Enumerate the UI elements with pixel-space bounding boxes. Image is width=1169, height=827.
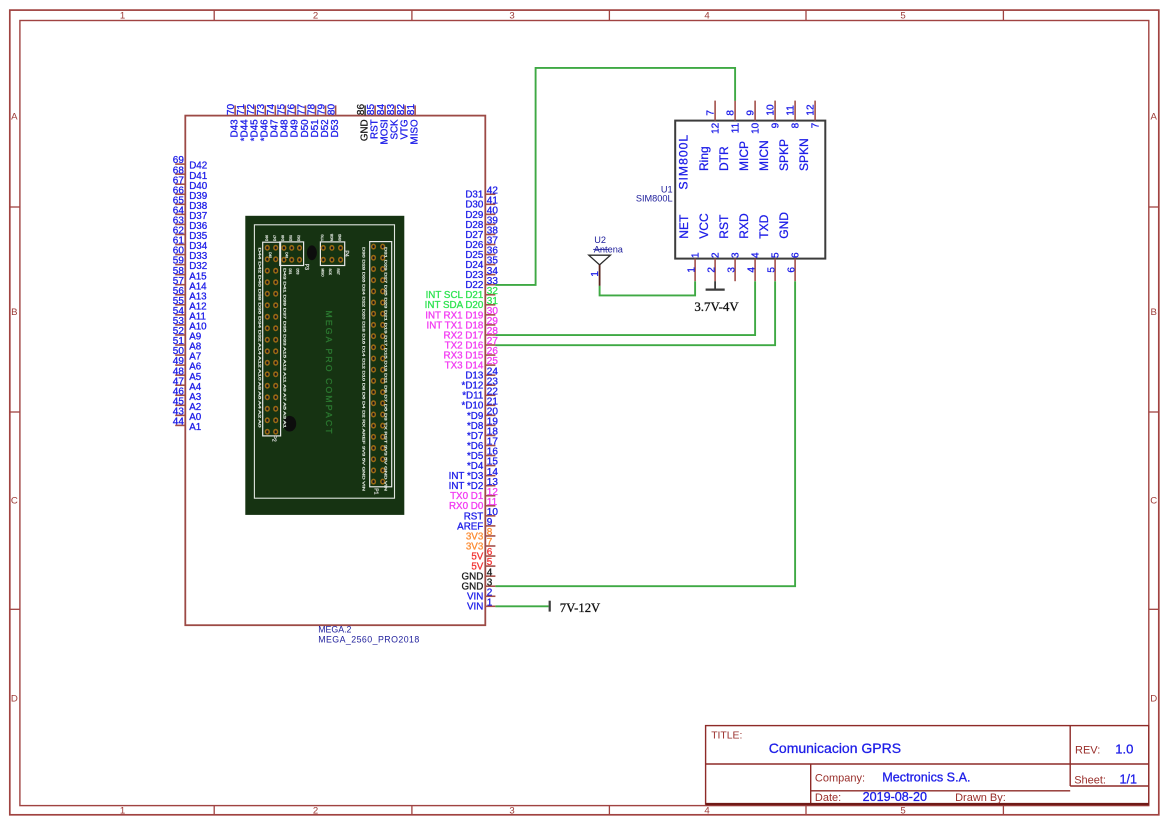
- svg-text:4: 4: [747, 267, 758, 273]
- svg-text:80: 80: [327, 104, 338, 116]
- svg-text:MISO: MISO: [320, 269, 324, 278]
- pin 54 A11: [173, 306, 206, 323]
- svg-text:7: 7: [706, 110, 717, 116]
- pin 37 D26: [465, 236, 498, 251]
- svg-text:7V-12V: 7V-12V: [560, 601, 601, 615]
- pin 44 A1: [173, 417, 201, 434]
- svg-text:MEGA_2560_PRO2018: MEGA_2560_PRO2018: [318, 635, 420, 645]
- svg-text:Mectronics S.A.: Mectronics S.A.: [882, 770, 970, 784]
- svg-text:D48: D48: [281, 235, 285, 241]
- svg-text:1: 1: [120, 11, 125, 22]
- svg-text:8: 8: [726, 110, 737, 116]
- svg-text:1: 1: [691, 252, 702, 258]
- pin 9 AREF: [457, 517, 495, 532]
- svg-text:Date:: Date:: [815, 792, 841, 804]
- pin 62 D35: [173, 226, 208, 243]
- svg-text:REV:: REV:: [1075, 745, 1100, 757]
- svg-text:YTG: YTG: [321, 234, 325, 241]
- svg-text:NET: NET: [677, 214, 691, 239]
- pin 42 D31: [465, 185, 498, 200]
- svg-text:MICP: MICP: [737, 141, 751, 171]
- pin 66 D39: [173, 185, 207, 202]
- pin 79 D52: [316, 104, 330, 138]
- svg-text:D49: D49: [285, 252, 289, 258]
- pin 5 5V: [471, 557, 495, 572]
- svg-text:7: 7: [811, 122, 822, 128]
- svg-text:5: 5: [771, 252, 782, 258]
- pin 2 VCC (bottom): [697, 213, 721, 281]
- pin 33 D22: [465, 276, 498, 291]
- pin 22 *D11: [462, 386, 498, 401]
- pin 10 RST: [464, 507, 499, 522]
- pin 20 *D9: [467, 406, 498, 421]
- pin 14 INT *D3: [449, 467, 499, 482]
- pin 4 GND: [462, 567, 496, 582]
- svg-text:Drawn By:: Drawn By:: [955, 792, 1006, 804]
- svg-text:SPKN: SPKN: [797, 138, 811, 171]
- pin 71 *D44: [236, 104, 250, 142]
- pin 74 D47: [266, 104, 280, 138]
- pin 5 TXD (bottom): [757, 214, 781, 281]
- svg-text:1: 1: [120, 806, 125, 817]
- pin 28 RX2 D17: [444, 326, 499, 341]
- module U3 MEGA_2560_PRO2018 body: [185, 116, 485, 626]
- svg-text:VCC: VCC: [697, 213, 711, 239]
- pin 11 RX0 D0: [449, 497, 498, 512]
- pin 64 D37: [173, 205, 207, 222]
- svg-text:5: 5: [900, 11, 905, 22]
- pin 32 INT SCL D21: [426, 286, 499, 301]
- svg-text:MISO: MISO: [409, 119, 420, 144]
- svg-text:D: D: [1150, 693, 1157, 704]
- svg-text:A: A: [1150, 112, 1157, 123]
- svg-text:5: 5: [900, 806, 905, 817]
- pin 1 VIN: [467, 597, 495, 612]
- svg-text:GND: GND: [338, 233, 342, 241]
- pin 29 INT TX1 D18: [426, 316, 498, 331]
- title block texts: [711, 731, 1106, 804]
- pin 83 SCK: [386, 104, 400, 140]
- pin 43 A0: [173, 406, 202, 423]
- pin 69 D42: [173, 155, 207, 172]
- pin 41 D30: [465, 195, 498, 210]
- pin 55 A12: [173, 296, 207, 313]
- svg-text:5: 5: [767, 267, 778, 273]
- pin 65 D38: [173, 195, 208, 212]
- pin 84 MOSI: [376, 104, 390, 145]
- wire D22 to U1 DTR pin 8: [495, 68, 735, 285]
- pin 35 D24: [465, 256, 498, 271]
- svg-text:C: C: [1150, 495, 1157, 506]
- pin 31 INT SDA D20: [425, 296, 499, 311]
- svg-text:D30 D28 D26 D24 D22 D20 D18 D1: D30 D28 D26 D24 D22 D20 D18 D16 D14 D12 …: [362, 247, 366, 492]
- title block: [706, 726, 1149, 805]
- pin 80 D53: [327, 104, 341, 138]
- svg-text:3: 3: [727, 267, 738, 273]
- pin 12 TX0 D1: [450, 487, 498, 502]
- svg-text:2: 2: [707, 267, 718, 273]
- svg-text:1: 1: [687, 267, 698, 273]
- pin 47 A4: [173, 376, 202, 393]
- svg-text:D53: D53: [330, 119, 341, 138]
- svg-text:Sheet:: Sheet:: [1074, 774, 1106, 786]
- svg-text:3: 3: [731, 252, 742, 258]
- pin 38 D27: [465, 226, 498, 241]
- pin 73 *D46: [256, 104, 270, 142]
- svg-text:SIM800L: SIM800L: [636, 193, 673, 203]
- pin 82 VTG: [396, 104, 410, 140]
- svg-text:2: 2: [313, 806, 318, 817]
- svg-text:44: 44: [173, 417, 185, 428]
- pin 50 A7: [173, 346, 201, 363]
- svg-text:2: 2: [711, 252, 722, 258]
- svg-text:10: 10: [751, 122, 762, 134]
- svg-text:C: C: [11, 495, 18, 506]
- svg-text:B: B: [1150, 307, 1156, 318]
- pin 16 *D5: [467, 447, 498, 462]
- svg-text:3: 3: [509, 806, 514, 817]
- pin 76 D49: [286, 104, 300, 138]
- pin 7 Ring (top): [697, 101, 721, 171]
- svg-text:3.7V-4V: 3.7V-4V: [694, 300, 739, 314]
- pin 30 INT RX1 D19: [425, 306, 498, 321]
- svg-text:D: D: [11, 693, 18, 704]
- IC U1 SIM800L body: [675, 121, 825, 259]
- pin 36 D25: [465, 246, 498, 261]
- pin 51 A8: [173, 336, 202, 353]
- svg-text:Ring: Ring: [697, 146, 711, 171]
- wire GND to U1 GND pin 6: [495, 281, 795, 586]
- pin 58 A15: [173, 266, 207, 283]
- pin 3 RST (bottom): [717, 214, 741, 281]
- svg-text:3: 3: [509, 11, 514, 22]
- pin 19 *D8: [467, 417, 498, 432]
- pin 6 5V: [471, 547, 495, 562]
- svg-text:4: 4: [704, 11, 710, 22]
- pin 24 D13: [465, 366, 498, 381]
- antenna U2 Antena: [589, 235, 624, 286]
- svg-text:D45: D45: [268, 252, 272, 258]
- supply 7V-12V on VIN: [550, 601, 601, 616]
- svg-text:2: 2: [313, 11, 318, 22]
- svg-text:Comunicacion GPRS: Comunicacion GPRS: [769, 740, 901, 756]
- svg-text:81: 81: [406, 104, 417, 116]
- pin 10 MICN (top): [757, 101, 781, 171]
- pin 68 D41: [173, 165, 207, 182]
- svg-text:SPKP: SPKP: [777, 139, 791, 171]
- svg-text:A: A: [11, 112, 18, 123]
- pin 15 *D4: [467, 457, 498, 472]
- svg-text:D44 D42 D40 D38 D36 D34 D32 A1: D44 D42 D40 D38 D36 D34 D32 A14 A12 A10 …: [258, 248, 262, 428]
- svg-text:GND: GND: [777, 212, 791, 239]
- svg-text:10: 10: [766, 104, 777, 116]
- svg-text:6: 6: [787, 267, 798, 273]
- pin 13 INT *D2: [449, 477, 499, 492]
- svg-text:9: 9: [771, 122, 782, 128]
- pin 67 D40: [173, 175, 208, 192]
- svg-text:P3: P3: [303, 264, 309, 270]
- svg-text:P1: P1: [372, 488, 378, 494]
- pin 86 GND: [356, 104, 370, 142]
- pin 17 *D6: [467, 437, 498, 452]
- pin 46 A3: [173, 386, 202, 403]
- pin 63 D36: [173, 216, 208, 233]
- pin 75 D48: [276, 104, 290, 138]
- pin 3 GND: [462, 577, 496, 592]
- svg-text:DTR: DTR: [717, 146, 731, 171]
- pin 72 *D45: [246, 104, 260, 142]
- PCB photo MEGA PRO COMPACT: [245, 216, 404, 515]
- svg-text:4: 4: [751, 252, 762, 258]
- pin 45 A2: [173, 396, 201, 413]
- pin 21 *D10: [462, 396, 499, 411]
- svg-text:2019-08-20: 2019-08-20: [863, 790, 927, 804]
- pin 60 D33: [173, 246, 208, 263]
- wire VIN to 7V-12V supply: [495, 605, 548, 607]
- svg-text:SIM800L: SIM800L: [676, 134, 690, 190]
- pin 26 RX3 D15: [444, 346, 499, 361]
- svg-text:D46: D46: [265, 235, 269, 241]
- pin 85 RST: [366, 104, 380, 139]
- svg-text:D50: D50: [289, 235, 293, 241]
- svg-text:12: 12: [806, 104, 817, 116]
- svg-text:Company:: Company:: [815, 772, 865, 784]
- pin 8 3V3: [466, 527, 496, 542]
- pin 53 A10: [173, 316, 207, 333]
- svg-text:D43 D41 D39 D37 D35 D33 A15 A1: D43 D41 D39 D37 D35 D33 A15 A13 A11 A9 A…: [283, 268, 287, 428]
- pin 40 D29: [465, 205, 498, 220]
- pin 18 *D7: [467, 427, 498, 442]
- svg-text:11: 11: [786, 105, 797, 116]
- svg-text:D51: D51: [288, 269, 292, 275]
- pin 7 3V3: [466, 537, 496, 552]
- svg-text:1: 1: [487, 597, 493, 608]
- svg-text:D31 D29 D27 D25 D23 D21 D19 D1: D31 D29 D27 D25 D23 D21 D19 D17 D15 D13 …: [384, 247, 388, 492]
- pin 23 *D12: [462, 376, 499, 391]
- pin 6 GND (bottom): [777, 212, 801, 282]
- pin 49 A6: [173, 356, 202, 373]
- svg-text:MEGA PRO COMPACT: MEGA PRO COMPACT: [324, 311, 334, 436]
- pin 11 SPKP (top): [777, 101, 801, 171]
- wire TX2 D16 to U1 TXD pin 5: [495, 281, 775, 345]
- pin 1 NET (bottom): [677, 214, 701, 281]
- pin 2 VIN: [467, 587, 495, 602]
- pin 4 RXD (bottom): [737, 213, 761, 281]
- svg-text:B: B: [11, 307, 17, 318]
- pin 34 D23: [465, 266, 498, 281]
- svg-text:D47: D47: [273, 235, 277, 241]
- svg-text:D53: D53: [296, 269, 300, 275]
- svg-text:TITLE:: TITLE:: [711, 731, 742, 742]
- svg-text:RST: RST: [717, 214, 731, 239]
- svg-text:VIN: VIN: [467, 602, 483, 613]
- svg-text:1/1: 1/1: [1120, 772, 1138, 786]
- pin 81 MISO: [406, 104, 420, 145]
- pin 61 D34: [173, 236, 208, 253]
- pin 12 SPKN (top): [797, 101, 821, 171]
- svg-text:9: 9: [746, 110, 757, 116]
- svg-text:MEGA.2: MEGA.2: [318, 624, 351, 634]
- pin 27 TX2 D16: [445, 336, 499, 351]
- svg-text:1: 1: [590, 271, 601, 277]
- pin 59 D32: [173, 256, 207, 273]
- svg-text:P4: P4: [343, 251, 349, 257]
- svg-text:RXD: RXD: [737, 213, 751, 239]
- pin 8 DTR (top): [717, 101, 741, 171]
- svg-text:TXD: TXD: [757, 214, 771, 238]
- pin 57 A14: [173, 276, 207, 293]
- svg-text:4: 4: [704, 806, 710, 817]
- svg-text:D62: D62: [297, 235, 301, 241]
- wire antenna to U1 NET pin 1: [600, 281, 696, 295]
- svg-text:RST: RST: [336, 269, 340, 275]
- pin 78 D51: [306, 104, 320, 138]
- svg-text:SCK: SCK: [328, 269, 332, 276]
- wire RX2 D17 to U1 RXD pin 4: [495, 281, 755, 335]
- svg-text:MICN: MICN: [757, 140, 771, 171]
- pin 25 TX3 D14: [445, 356, 499, 371]
- svg-text:12: 12: [711, 122, 722, 134]
- pin 48 A5: [173, 366, 202, 383]
- svg-text:P2: P2: [271, 436, 277, 442]
- pin 39 D28: [465, 216, 498, 231]
- pin 77 D50: [296, 104, 310, 138]
- pin 56 A13: [173, 286, 207, 303]
- pin 70 D43: [226, 104, 240, 138]
- svg-text:8: 8: [791, 122, 802, 128]
- svg-text:11: 11: [731, 122, 742, 133]
- svg-text:A1: A1: [189, 422, 201, 433]
- pin 9 MICP (top): [737, 101, 761, 171]
- svg-text:MOB: MOB: [330, 234, 334, 241]
- svg-text:1.0: 1.0: [1115, 742, 1133, 757]
- supply 3.7V-4V on U1 VCC: [694, 281, 739, 314]
- svg-text:6: 6: [791, 252, 802, 258]
- pin 52 A9: [173, 326, 201, 343]
